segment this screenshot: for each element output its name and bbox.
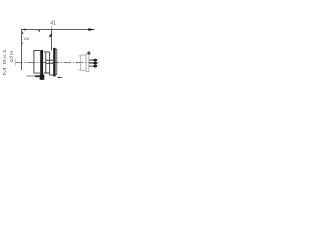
svg-text:41: 41	[50, 21, 56, 27]
body: mid step	[50, 52, 54, 75]
bottom dim bar left	[35, 75, 40, 77]
arrowhead left of dimension 41	[22, 29, 26, 31]
pin 1	[89, 59, 94, 61]
centerline start tick	[15, 59, 17, 66]
bottom dim tail right with arrow	[57, 77, 60, 79]
body: knurled ring (dark)	[40, 50, 43, 75]
leader arrow	[49, 33, 52, 37]
body: rear ring (dark)	[53, 48, 55, 77]
body: rear cap	[56, 49, 57, 74]
pin 2	[89, 62, 94, 64]
small arrow on extension line (lower)	[21, 43, 23, 45]
body: front cylinder (thread)	[34, 50, 40, 73]
knurled ring foot / bottom dim arrows	[40, 75, 45, 80]
svg-text:Ø8: Ø8	[24, 37, 29, 41]
mating connector nose line	[78, 55, 81, 70]
dimension line 41 (top)	[22, 29, 95, 31]
inner bore lines	[46, 60, 53, 63]
svg-text:Ø9: Ø9	[9, 49, 14, 62]
svg-text:M 8x1: M 8x1	[2, 48, 7, 76]
small arrow on extension line (upper)	[22, 31, 24, 33]
leader line from text 41 down to body	[51, 29, 53, 51]
bottom dim tail left	[27, 75, 36, 77]
body: mid section	[44, 52, 50, 73]
extension line left	[21, 29, 23, 70]
centerline (dash-dot)	[15, 62, 99, 64]
keying notch (dark, top)	[88, 52, 91, 55]
mating connector thread box	[86, 54, 89, 72]
tick mark on dimension line	[38, 30, 40, 33]
pin 3	[89, 65, 94, 67]
mating connector (light gray) body box	[81, 55, 86, 71]
connector technical drawing	[0, 0, 100, 100]
arrowhead right of dimension 41	[88, 28, 94, 31]
